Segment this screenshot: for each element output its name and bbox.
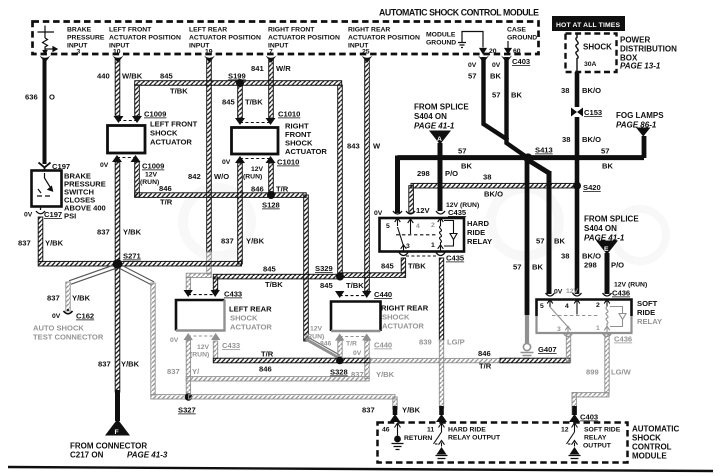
module internal brake-pressure symbol bbox=[38, 26, 58, 55]
svg-text:837: 837 bbox=[97, 228, 110, 237]
svg-text:C403: C403 bbox=[512, 57, 530, 66]
svg-text:Y/BK: Y/BK bbox=[376, 370, 395, 379]
svg-text:C433: C433 bbox=[224, 290, 242, 299]
svg-text:FOG LAMPS: FOG LAMPS bbox=[616, 111, 664, 120]
wire 837 S271 to S327 run bbox=[120, 265, 154, 285]
svg-text:G407: G407 bbox=[538, 345, 557, 354]
wire 845 T/BK left rear riser and run to S329 bbox=[213, 277, 217, 290]
svg-text:BK: BK bbox=[461, 162, 472, 171]
svg-text:O: O bbox=[49, 93, 55, 102]
svg-text:ACTUATOR POSITION: ACTUATOR POSITION bbox=[109, 35, 181, 42]
svg-text:BK/O: BK/O bbox=[484, 190, 503, 199]
svg-text:(RUN): (RUN) bbox=[305, 334, 324, 341]
svg-text:LEFT REAR: LEFT REAR bbox=[229, 305, 272, 314]
svg-text:3: 3 bbox=[406, 243, 410, 250]
wire 846 T/R right front drop bbox=[269, 163, 274, 193]
wire 839 LG/P relay to module pin 11 bbox=[439, 258, 443, 340]
svg-text:C153: C153 bbox=[584, 108, 602, 117]
wire 57 BK module pin 60 drop bbox=[507, 57, 529, 158]
svg-text:Y/BK: Y/BK bbox=[123, 228, 142, 237]
svg-text:BK/O: BK/O bbox=[582, 252, 601, 261]
connector C1010 (top) bbox=[235, 118, 276, 125]
svg-text:ACTUATOR POSITION: ACTUATOR POSITION bbox=[189, 35, 261, 42]
svg-text:SHOCK: SHOCK bbox=[230, 314, 258, 323]
svg-text:S329: S329 bbox=[315, 264, 333, 273]
svg-text:BRAKE: BRAKE bbox=[67, 27, 92, 34]
wire 38 BK/O to soft ride relay pin 4 bbox=[575, 186, 580, 294]
ground G407 bbox=[523, 343, 530, 350]
svg-text:PSI: PSI bbox=[64, 212, 76, 221]
svg-text:LG/P: LG/P bbox=[447, 338, 465, 347]
svg-text:845: 845 bbox=[160, 72, 173, 81]
svg-text:837: 837 bbox=[18, 239, 31, 248]
connector C433 (top) bbox=[184, 290, 220, 297]
svg-text:12V (RUN): 12V (RUN) bbox=[614, 282, 647, 289]
svg-text:5: 5 bbox=[540, 303, 544, 310]
svg-text:P/O: P/O bbox=[611, 261, 624, 270]
wire 440 W/BK bbox=[115, 59, 120, 116]
svg-text:SOFT: SOFT bbox=[637, 299, 658, 308]
svg-text:12V: 12V bbox=[145, 172, 158, 179]
svg-text:25: 25 bbox=[362, 49, 370, 56]
svg-text:636: 636 bbox=[25, 93, 38, 102]
svg-text:837: 837 bbox=[47, 294, 60, 303]
wire 846 T/R bottom bus to G407/soft relay bbox=[213, 341, 217, 359]
svg-text:S328: S328 bbox=[330, 368, 348, 377]
svg-text:3: 3 bbox=[557, 326, 561, 333]
svg-text:HOT AT ALL TIMES: HOT AT ALL TIMES bbox=[556, 22, 620, 29]
left front shock actuator A1 bbox=[108, 126, 146, 154]
svg-text:RIDE: RIDE bbox=[637, 308, 655, 317]
wire 57 BK drop to hard ride relay pin 5 bbox=[395, 156, 400, 214]
wire 837 Y/BK run to module pin 46 bbox=[189, 395, 396, 399]
svg-text:C217 ON: C217 ON bbox=[70, 451, 104, 460]
svg-text:0V: 0V bbox=[374, 210, 383, 217]
svg-text:0V: 0V bbox=[52, 313, 61, 320]
svg-text:837: 837 bbox=[362, 406, 375, 415]
watermark arcs (faint) bbox=[183, 188, 666, 261]
svg-text:S413: S413 bbox=[535, 146, 553, 155]
svg-text:842: 842 bbox=[188, 172, 201, 181]
svg-text:Y/BK: Y/BK bbox=[72, 294, 91, 303]
svg-text:W/BK: W/BK bbox=[122, 72, 143, 81]
wire 846 T/R right rear riser to S328 bbox=[338, 341, 342, 357]
splice S413 bbox=[523, 153, 532, 162]
svg-text:4: 4 bbox=[565, 303, 569, 310]
svg-text:846: 846 bbox=[251, 185, 264, 194]
svg-text:0V: 0V bbox=[222, 159, 231, 166]
svg-text:E: E bbox=[604, 246, 609, 253]
svg-text:12V: 12V bbox=[416, 206, 430, 215]
power distribution box (dashed) bbox=[566, 34, 617, 73]
svg-text:BK: BK bbox=[511, 91, 522, 100]
svg-text:DISTRIBUTION: DISTRIBUTION bbox=[620, 45, 677, 54]
svg-text:HARD RIDE: HARD RIDE bbox=[448, 427, 486, 434]
svg-text:46: 46 bbox=[382, 427, 390, 434]
svg-text:845: 845 bbox=[263, 265, 276, 274]
svg-text:T/R: T/R bbox=[160, 198, 173, 207]
svg-text:W/O: W/O bbox=[214, 172, 229, 181]
svg-text:AUTO SHOCK: AUTO SHOCK bbox=[33, 324, 84, 333]
svg-text:RELAY OUTPUT: RELAY OUTPUT bbox=[448, 435, 501, 442]
svg-text:LEFT REAR: LEFT REAR bbox=[189, 27, 227, 34]
svg-text:HARD: HARD bbox=[467, 219, 489, 228]
svg-text:LEFT FRONT: LEFT FRONT bbox=[150, 120, 198, 129]
svg-text:S199: S199 bbox=[228, 72, 246, 81]
splice S199 bbox=[236, 79, 244, 87]
svg-text:0V: 0V bbox=[554, 289, 563, 296]
wire 837 Y/BK left rear drop to S327 bbox=[186, 341, 190, 398]
HOT AT ALL TIMES banner bbox=[552, 16, 625, 31]
splice S327 bbox=[185, 393, 193, 401]
svg-text:S404 ON: S404 ON bbox=[584, 224, 617, 233]
svg-text:2: 2 bbox=[596, 302, 600, 309]
svg-text:CASE: CASE bbox=[507, 27, 526, 34]
svg-text:(RUN): (RUN) bbox=[243, 174, 262, 181]
wire 57 BK module pin 20 drop bbox=[484, 57, 509, 140]
svg-text:BK: BK bbox=[532, 263, 543, 272]
svg-text:11: 11 bbox=[427, 427, 434, 434]
svg-text:BK/O: BK/O bbox=[582, 86, 601, 95]
wire 636 O brake pressure input bbox=[43, 59, 47, 164]
svg-text:A: A bbox=[437, 136, 442, 143]
svg-text:F: F bbox=[115, 429, 119, 436]
wire 57 BK S413 to G407 bbox=[525, 158, 530, 315]
svg-text:12V: 12V bbox=[566, 288, 579, 295]
splice S128 bbox=[267, 191, 275, 199]
svg-text:C1010: C1010 bbox=[277, 158, 299, 167]
svg-text:12V: 12V bbox=[251, 166, 264, 173]
wire 843 W bbox=[365, 59, 370, 291]
svg-text:57: 57 bbox=[468, 72, 476, 81]
svg-text:RIGHT REAR: RIGHT REAR bbox=[381, 304, 429, 313]
svg-text:OUTPUT: OUTPUT bbox=[583, 443, 612, 450]
connector A triangle bbox=[429, 131, 451, 145]
svg-text:T/R: T/R bbox=[261, 350, 274, 359]
module pin sockets on bottom edge bbox=[40, 56, 513, 64]
wire 837 Y/BK brake switch to S271 bbox=[38, 217, 43, 262]
svg-text:RETURN: RETURN bbox=[404, 435, 432, 442]
svg-text:0V: 0V bbox=[353, 350, 362, 357]
fuse SHOCK 30A bbox=[576, 34, 578, 73]
svg-text:C1009: C1009 bbox=[144, 110, 166, 119]
svg-text:T/R: T/R bbox=[346, 341, 357, 348]
connector C1009 (bottom) bbox=[112, 155, 141, 162]
svg-text:BK: BK bbox=[490, 72, 501, 81]
svg-text:C1010: C1010 bbox=[278, 110, 300, 119]
svg-text:FROM SPLICE: FROM SPLICE bbox=[584, 215, 639, 224]
svg-text:SHOCK: SHOCK bbox=[632, 434, 661, 443]
wire 298 P/O to hard ride relay bbox=[438, 143, 443, 211]
svg-text:Y/: Y/ bbox=[192, 367, 200, 376]
svg-text:4: 4 bbox=[416, 223, 420, 230]
wire 837 Y/BK right rear drop bbox=[365, 341, 369, 379]
svg-text:837: 837 bbox=[221, 237, 234, 246]
svg-text:T/BK: T/BK bbox=[170, 87, 188, 96]
connector C1009 (top) bbox=[114, 116, 143, 123]
svg-text:ACTUATOR POSITION: ACTUATOR POSITION bbox=[348, 35, 420, 42]
svg-text:SOFT RIDE: SOFT RIDE bbox=[584, 427, 621, 434]
svg-text:843: 843 bbox=[347, 142, 360, 151]
svg-text:3: 3 bbox=[77, 49, 81, 56]
svg-text:S327: S327 bbox=[178, 406, 196, 415]
svg-text:POWER: POWER bbox=[620, 36, 650, 45]
svg-text:ACTUATOR: ACTUATOR bbox=[230, 323, 272, 332]
svg-text:C162: C162 bbox=[76, 312, 94, 321]
connector F triangle (from C217) bbox=[105, 419, 130, 436]
brake pressure switch SW1 bbox=[32, 171, 62, 207]
right front shock actuator A2 bbox=[232, 128, 279, 155]
svg-text:MODULE: MODULE bbox=[632, 452, 667, 461]
left rear shock actuator A3 bbox=[176, 300, 225, 331]
svg-text:LG/W: LG/W bbox=[611, 368, 632, 377]
svg-text:38: 38 bbox=[483, 173, 491, 182]
svg-text:298: 298 bbox=[584, 261, 597, 270]
connector C436 (bottom) bbox=[564, 334, 612, 337]
wire 38 BK/O below C153 bbox=[575, 117, 580, 186]
svg-text:ACTUATOR: ACTUATOR bbox=[382, 322, 424, 331]
svg-text:845: 845 bbox=[381, 262, 394, 271]
svg-text:C436: C436 bbox=[614, 335, 632, 344]
svg-text:0V: 0V bbox=[24, 212, 33, 219]
wire 846 T/R drop to S328 bbox=[304, 195, 309, 341]
svg-text:Y/BK: Y/BK bbox=[45, 239, 64, 248]
svg-text:899: 899 bbox=[586, 368, 599, 377]
svg-text:1: 1 bbox=[431, 242, 435, 249]
svg-text:T/R: T/R bbox=[276, 185, 289, 194]
svg-text:TEST CONNECTOR: TEST CONNECTOR bbox=[33, 333, 104, 342]
svg-text:845: 845 bbox=[222, 98, 235, 107]
svg-text:57: 57 bbox=[536, 237, 544, 246]
wire 38 BK/O branch to hard ride relay bbox=[411, 183, 577, 188]
svg-text:Y/BK: Y/BK bbox=[246, 237, 265, 246]
connector C440 (bottom) bbox=[335, 334, 371, 341]
soft ride relay K2 bbox=[537, 300, 632, 334]
svg-text:846: 846 bbox=[259, 365, 272, 374]
svg-text:Y/BK: Y/BK bbox=[402, 406, 421, 415]
svg-text:RELAY: RELAY bbox=[637, 317, 662, 326]
svg-text:10: 10 bbox=[113, 49, 121, 56]
svg-text:GROUND: GROUND bbox=[507, 35, 537, 42]
svg-text:ACTUATOR POSITION: ACTUATOR POSITION bbox=[268, 35, 340, 42]
connector C153 bbox=[571, 108, 583, 117]
svg-text:C436: C436 bbox=[612, 289, 630, 298]
svg-text:846: 846 bbox=[320, 341, 332, 348]
wire 837 Y/BK left front drop bbox=[115, 162, 120, 265]
svg-text:MODULE: MODULE bbox=[426, 32, 456, 39]
connector C197 upper bbox=[39, 163, 51, 172]
svg-text:C403: C403 bbox=[580, 413, 598, 422]
svg-text:BK: BK bbox=[602, 162, 613, 171]
wire 846 T/R left front to S128 bbox=[135, 162, 140, 197]
connector C435 (bottom) bbox=[399, 253, 445, 256]
wire 38 BK/O fuse drop bbox=[575, 72, 580, 107]
wire 298 P/O to soft ride relay bbox=[605, 253, 610, 294]
svg-text:C1009: C1009 bbox=[142, 162, 164, 171]
svg-text:20: 20 bbox=[489, 48, 497, 55]
wire 57 BK S413 to soft ride relay pin 5 bbox=[528, 160, 549, 173]
svg-text:Y/BK: Y/BK bbox=[121, 360, 140, 369]
wire 837 Y/BK right front drop bbox=[238, 163, 243, 264]
svg-text:S404 ON: S404 ON bbox=[414, 112, 447, 121]
svg-text:2: 2 bbox=[431, 222, 435, 229]
svg-text:0V: 0V bbox=[100, 162, 109, 169]
wire 57 BK fog lamps riser bbox=[642, 136, 647, 158]
svg-text:0V: 0V bbox=[170, 337, 179, 344]
module U1 bottom box (automatic shock control module) bbox=[378, 423, 628, 463]
svg-text:38: 38 bbox=[561, 252, 569, 261]
svg-text:W: W bbox=[373, 142, 381, 151]
svg-text:W/R: W/R bbox=[276, 64, 291, 73]
svg-text:7: 7 bbox=[269, 49, 273, 56]
svg-text:SHOCK: SHOCK bbox=[583, 43, 612, 52]
connector C1010 (bottom) bbox=[235, 156, 276, 163]
svg-text:FROM SPLICE: FROM SPLICE bbox=[414, 103, 469, 112]
svg-text:C197: C197 bbox=[44, 210, 62, 219]
svg-text:CONTROL: CONTROL bbox=[632, 443, 672, 452]
svg-text:57: 57 bbox=[513, 263, 521, 272]
splice S328 bbox=[336, 357, 344, 365]
fog lamps arrow bbox=[636, 128, 651, 137]
svg-text:12V: 12V bbox=[197, 344, 210, 351]
wire 842 W/O bbox=[207, 59, 212, 252]
svg-text:839: 839 bbox=[419, 338, 432, 347]
svg-text:T/R: T/R bbox=[479, 362, 492, 371]
svg-text:GROUND: GROUND bbox=[426, 40, 456, 47]
svg-text:SHOCK: SHOCK bbox=[150, 129, 178, 138]
svg-text:(RUN): (RUN) bbox=[140, 179, 159, 186]
svg-text:BK/O: BK/O bbox=[582, 135, 601, 144]
svg-text:RIGHT FRONT: RIGHT FRONT bbox=[268, 27, 315, 34]
svg-text:PAGE 86-1: PAGE 86-1 bbox=[616, 121, 657, 130]
connector E triangle bbox=[596, 241, 618, 255]
svg-text:S420: S420 bbox=[583, 183, 601, 192]
svg-text:57: 57 bbox=[492, 91, 500, 100]
svg-text:PAGE 41-1: PAGE 41-1 bbox=[414, 122, 455, 131]
svg-text:0V: 0V bbox=[492, 62, 501, 69]
splice S271 bbox=[113, 259, 123, 269]
svg-text:841: 841 bbox=[251, 64, 264, 73]
svg-text:C440: C440 bbox=[374, 290, 392, 299]
svg-text:PAGE 13-1: PAGE 13-1 bbox=[620, 62, 661, 71]
svg-text:S271: S271 bbox=[123, 252, 142, 261]
svg-text:ACTUATOR: ACTUATOR bbox=[285, 147, 327, 156]
svg-text:T/BK: T/BK bbox=[346, 281, 364, 290]
svg-text:FROM CONNECTOR: FROM CONNECTOR bbox=[70, 442, 147, 451]
svg-text:57: 57 bbox=[458, 147, 466, 156]
svg-text:12V: 12V bbox=[310, 326, 323, 333]
connector C433 (bottom) bbox=[184, 333, 221, 340]
wire 57 BK horizontal bus bbox=[398, 155, 645, 160]
svg-text:60: 60 bbox=[513, 48, 521, 55]
svg-text:P/O: P/O bbox=[445, 169, 458, 178]
svg-text:837: 837 bbox=[98, 360, 111, 369]
connector C440 (top) bbox=[335, 291, 371, 298]
wire 841 W/R bbox=[269, 59, 274, 118]
splice S329 bbox=[336, 273, 344, 281]
svg-text:RELAY: RELAY bbox=[584, 435, 607, 442]
wire 899 LG/W soft relay to module pin 12 bbox=[605, 334, 609, 393]
svg-text:AUTOMATIC SHOCK CONTROL MODULE: AUTOMATIC SHOCK CONTROL MODULE bbox=[379, 8, 539, 18]
svg-text:LEFT FRONT: LEFT FRONT bbox=[109, 27, 152, 34]
svg-text:19: 19 bbox=[205, 49, 213, 56]
svg-text:(RUN): (RUN) bbox=[190, 352, 209, 359]
svg-text:C440: C440 bbox=[374, 341, 392, 350]
wire 837 test connector branch bbox=[69, 265, 115, 284]
wire 845 T/BK relay to S329 bbox=[401, 258, 405, 273]
svg-text:C435: C435 bbox=[446, 254, 465, 263]
svg-text:AUTOMATIC: AUTOMATIC bbox=[632, 425, 679, 434]
svg-text:T/BK: T/BK bbox=[245, 98, 263, 107]
svg-text:38: 38 bbox=[562, 135, 570, 144]
wire 845 T/BK top run bbox=[135, 81, 342, 86]
svg-text:RIGHT REAR: RIGHT REAR bbox=[348, 27, 390, 34]
svg-text:C435: C435 bbox=[448, 208, 467, 217]
svg-text:5: 5 bbox=[386, 223, 390, 230]
hard ride relay K1 bbox=[380, 218, 465, 252]
svg-text:S128: S128 bbox=[262, 201, 280, 210]
svg-text:846: 846 bbox=[159, 184, 172, 193]
svg-text:57: 57 bbox=[601, 147, 609, 156]
svg-text:PRESSURE: PRESSURE bbox=[67, 35, 105, 42]
svg-text:30A: 30A bbox=[584, 61, 597, 68]
connector C162 bbox=[64, 309, 73, 314]
svg-text:C433: C433 bbox=[222, 341, 240, 350]
module U1 top box (AUTOMATIC SHOCK CONTROL MODULE) bbox=[33, 22, 539, 55]
svg-text:12: 12 bbox=[561, 427, 569, 434]
svg-text:T/BK: T/BK bbox=[265, 280, 283, 289]
svg-text:837: 837 bbox=[351, 370, 364, 379]
svg-text:RIDE: RIDE bbox=[467, 228, 485, 237]
page rule bbox=[8, 467, 713, 471]
svg-text:SHOCK: SHOCK bbox=[382, 313, 410, 322]
svg-text:837: 837 bbox=[167, 367, 180, 376]
svg-text:PAGE 41-3: PAGE 41-3 bbox=[127, 451, 168, 460]
svg-text:440: 440 bbox=[97, 72, 110, 81]
svg-text:1: 1 bbox=[596, 325, 600, 332]
svg-text:846: 846 bbox=[478, 349, 491, 358]
svg-text:T/BK: T/BK bbox=[408, 262, 426, 271]
svg-text:0V: 0V bbox=[468, 62, 477, 69]
svg-text:BK: BK bbox=[554, 237, 565, 246]
svg-text:298: 298 bbox=[417, 169, 430, 178]
splice S420 bbox=[573, 182, 581, 190]
svg-text:38: 38 bbox=[561, 86, 569, 95]
svg-text:RELAY: RELAY bbox=[467, 237, 492, 246]
right rear shock actuator A4 bbox=[331, 302, 381, 332]
svg-text:845: 845 bbox=[320, 281, 333, 290]
svg-text:ACTUATOR: ACTUATOR bbox=[150, 138, 192, 147]
wire 837 Y/BK main drop to C217 bbox=[115, 264, 120, 392]
